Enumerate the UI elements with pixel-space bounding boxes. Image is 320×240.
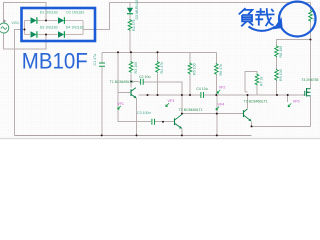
capacitor C3 100n horizontal [152,119,155,125]
wire: R6 node down to T3 base level and rail [216,95,218,135]
svg-text:R4 47k: R4 47k [160,62,164,74]
wire: R8 to R9 link [276,57,278,70]
voltage generator VG1 [0,20,9,33]
wire: T3 collector riser [245,92,248,108]
svg-text:T2 BC846BLT1: T2 BC846BLT1 [179,108,203,112]
wire: R5 chain [189,52,191,95]
wire: T2 emitter drop [181,128,183,135]
wire: R4 chain [157,52,159,95]
wire: R6 chain [215,52,217,95]
capacitor C1 47u vertical [99,63,105,66]
wire: sense branch over to R8 [277,40,311,46]
wire: lower right rail [252,125,311,127]
resistor R3 100 [129,61,133,73]
voltage pin VF4 [216,102,224,110]
wire: C1 chain [101,52,103,135]
svg-text:D1 1N1183: D1 1N1183 [40,10,58,14]
annotation: load ellipse [279,2,316,37]
svg-text:R9 100: R9 100 [279,69,283,81]
transistor T3 BC846BLT1 [244,109,252,121]
wire: mid wire after C4 [204,94,304,96]
svg-text:VF5: VF5 [293,99,300,103]
wire: mid rail [102,51,216,53]
wire: C2 right run and drop to mid wire [144,82,182,115]
wire: R3 chain [130,52,132,81]
wire: D5 R2 chain [129,3,131,53]
capacitor C4 10u horizontal [201,92,204,98]
svg-text:C3 100n: C3 100n [137,111,151,115]
wire: DC+ output to riser [83,3,110,30]
resistor R9 100 [275,69,279,81]
voltage pin VF5 [288,99,300,107]
wire: emitter node to mid wire [139,94,201,96]
diode D2 1N1183 [58,17,64,24]
resistor R4 47k [156,61,160,73]
wire: bridge row1 segments [25,20,84,22]
svg-text:D2 1N1183: D2 1N1183 [66,10,84,14]
wire: C3 left drop [118,93,151,122]
wire: T3 emitter corner [251,122,253,127]
wire: load RL chain [310,3,312,40]
svg-text:C1 47u: C1 47u [93,54,97,66]
voltage pin VF1 [117,102,124,109]
svg-text:T1 BC846BLT1: T1 BC846BLT1 [110,80,134,84]
wire: bridge right vertical node B [82,21,84,35]
resistor R5 100 [188,63,192,75]
wire: VF5 stub [287,95,289,102]
svg-text:R3 100: R3 100 [134,62,138,74]
svg-text:C4 10u: C4 10u [196,87,208,91]
diode D3 1N1183 [31,31,37,38]
wire: R7 bottom drop [256,86,258,96]
svg-text:VF4: VF4 [218,102,225,106]
svg-text:T3 BC846BLT1: T3 BC846BLT1 [244,100,268,104]
transistor T2 BC846BLT1 [175,115,182,129]
svg-text:MB10F: MB10F [22,49,88,74]
annotation: blue box around bridge [22,8,96,41]
wire: bridge row2 segments [25,34,84,36]
wire: C2 left from R3 node [131,81,140,83]
resistor R7 2k [255,74,259,86]
svg-text:R5 100: R5 100 [193,63,197,75]
svg-text:VG1: VG1 [11,21,19,25]
resistor R2 47k [128,19,132,31]
wire: T1 emitter drop [136,98,138,136]
wire: R9 down to mid wire [276,81,278,96]
transistor T1 BC846BLT1 [131,88,136,98]
wire: VG1 top to top AC run [4,3,47,24]
wire: VG1 bottom loop [4,33,47,49]
svg-text:R7 2k: R7 2k [259,76,263,86]
annotation: hand-drawn character ZAI (load) [255,8,274,26]
svg-text:VF2: VF2 [219,86,226,90]
wire: bottom rail [15,134,252,136]
diode D5 MUR420 vertical [127,8,133,14]
voltage pin VF2 [217,86,225,94]
wire: T4 drain riser [310,40,312,89]
svg-text:VF1: VF1 [117,102,124,106]
wire: T1 base chain [118,52,131,92]
wire: C3 right to T2 base [155,121,174,123]
voltage pin VF3 [166,99,175,107]
wire: T1 collector stub [130,82,132,88]
diode D4 1N1183 [58,31,64,38]
svg-text:R8 100: R8 100 [279,46,283,58]
wire: top DC+ rail [110,2,311,4]
capacitor C2 10u horizontal [141,79,144,85]
diode D1 1N1183 [31,17,37,24]
svg-text:C2 10u: C2 10u [139,75,151,79]
svg-text:T4 2N6755: T4 2N6755 [301,78,318,82]
svg-text:D4 1N1183: D4 1N1183 [66,25,84,29]
resistor R6 47k [215,63,219,75]
svg-text:R2 47k: R2 47k [132,19,136,31]
canvas bottom edge [0,138,320,139]
annotation: arrow from text to ellipse [249,18,283,31]
svg-text:D3 1N1183: D3 1N1183 [40,25,58,29]
wire: T2 collector rail to T3 base [182,113,243,115]
MOSFET T4 2N6755 [304,88,311,97]
wire: DC- tap going left and down [15,30,25,136]
wire: T4 source drop [310,96,312,126]
svg-text:D5 MUR420: D5 MUR420 [135,0,139,20]
svg-text:R6 47k: R6 47k [219,64,223,76]
load resistor RL 16 [309,10,313,22]
annotation: hand-drawn character FU (load) [239,8,253,26]
svg-text:VF3: VF3 [168,99,175,103]
wire: bridge left vertical node A [24,21,26,35]
wire: R7 loop top [245,72,257,93]
resistor R8 100 [275,45,279,57]
